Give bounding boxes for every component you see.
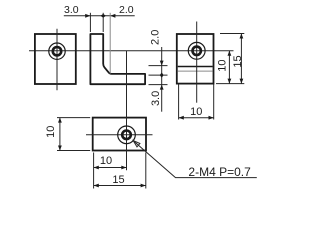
front view tapped hole M4 outer circle [49,43,65,59]
diamond arrow at B [101,14,106,18]
leader arrowhead [133,141,140,147]
bottom view plate outline [93,118,146,151]
arrow at A pointing right [85,14,90,18]
front view plate outline (left rectangle) [35,34,76,84]
chain tick 3 (bottom of part) [149,84,168,86]
bottom dimension line of right view (10) [179,117,214,119]
svg-text:10: 10 [190,106,202,118]
bottom edge extension line of right view [216,83,244,85]
right view tapped hole inner thread ring [193,47,201,55]
left 10 dimension lower extension line [57,150,90,152]
top edge extension line of right view [220,33,244,35]
bottom view vertical centerline (extends up through side view) [126,51,128,171]
right view 10 dimension vertical line [228,51,230,84]
bottom 10 dimension line [94,167,127,169]
front view tapped hole inner thread ring [53,47,61,55]
side view L profile outline [90,34,145,84]
down arrow of left 10 [58,146,62,151]
svg-text:15: 15 [232,55,244,67]
chain tick 1 [149,65,168,67]
right arrow of right view 10 [209,116,214,120]
left arrow of bottom 15 [94,184,99,188]
right view inner bend line (gray) [178,70,213,72]
extension line below right view left edge [178,85,180,120]
extension line A (left face of vertical leg) [89,13,91,32]
chain tick 2 (top of horizontal leg) [149,74,168,76]
bottom 15 dimension line [94,185,146,187]
left 10 dimension upper extension line [57,117,90,119]
up arrow below tick3 [160,85,164,90]
extension line B (right face of vertical leg) [102,13,104,32]
bottom view left extension line [93,153,95,189]
left arrow of right view 10 [179,116,184,120]
bottom view tapped hole inner thread ring [122,131,131,140]
diamond arrow at tick2 [160,72,164,77]
left 10 dimension vertical line [59,118,61,151]
top dimension line for 3.0 and 2.0 [64,15,135,17]
down arrow of vertical 15 [240,79,244,84]
bottom view horizontal centerline [86,134,153,136]
up arrow of vertical 10 [228,51,232,56]
svg-text:2-M4 P=0.7: 2-M4 P=0.7 [188,165,251,179]
svg-text:10: 10 [45,126,57,138]
right view vertical centerline [196,22,198,103]
svg-text:2.0: 2.0 [119,4,134,16]
right arrow of bottom 15 [141,184,146,188]
svg-text:2.0: 2.0 [150,30,162,45]
svg-text:3.0: 3.0 [64,4,79,16]
svg-text:10: 10 [100,155,112,167]
common hole-axis centerline across left part, side view and right part [29,50,234,52]
right arrow of bottom 10 [121,166,126,170]
down arrow at tick1 [160,61,164,66]
bottom view right extension line for 15 [145,153,147,189]
right view plate outline (right rectangle) [177,34,214,84]
down arrow of vertical 10 [228,79,232,84]
up arrow of left 10 [58,118,62,123]
leader line from bottom hole [133,141,256,178]
front view vertical centerline [56,29,58,90]
svg-text:10: 10 [217,59,229,71]
extension line below right view right edge [213,85,215,120]
right side chain dimension vertical line [161,47,163,112]
extension line C (bend tangent point) [109,13,111,74]
bottom view tapped hole outer circle [118,126,136,144]
svg-text:3.0: 3.0 [150,91,162,106]
right view inner edge line (dark) [178,66,213,68]
right view 15 dimension vertical line [240,34,242,84]
left arrow of bottom 10 [94,166,99,170]
right view tapped hole outer circle [188,42,205,59]
svg-text:15: 15 [112,174,124,186]
arrow at C pointing left [110,14,115,18]
up arrow of vertical 15 [240,34,244,39]
